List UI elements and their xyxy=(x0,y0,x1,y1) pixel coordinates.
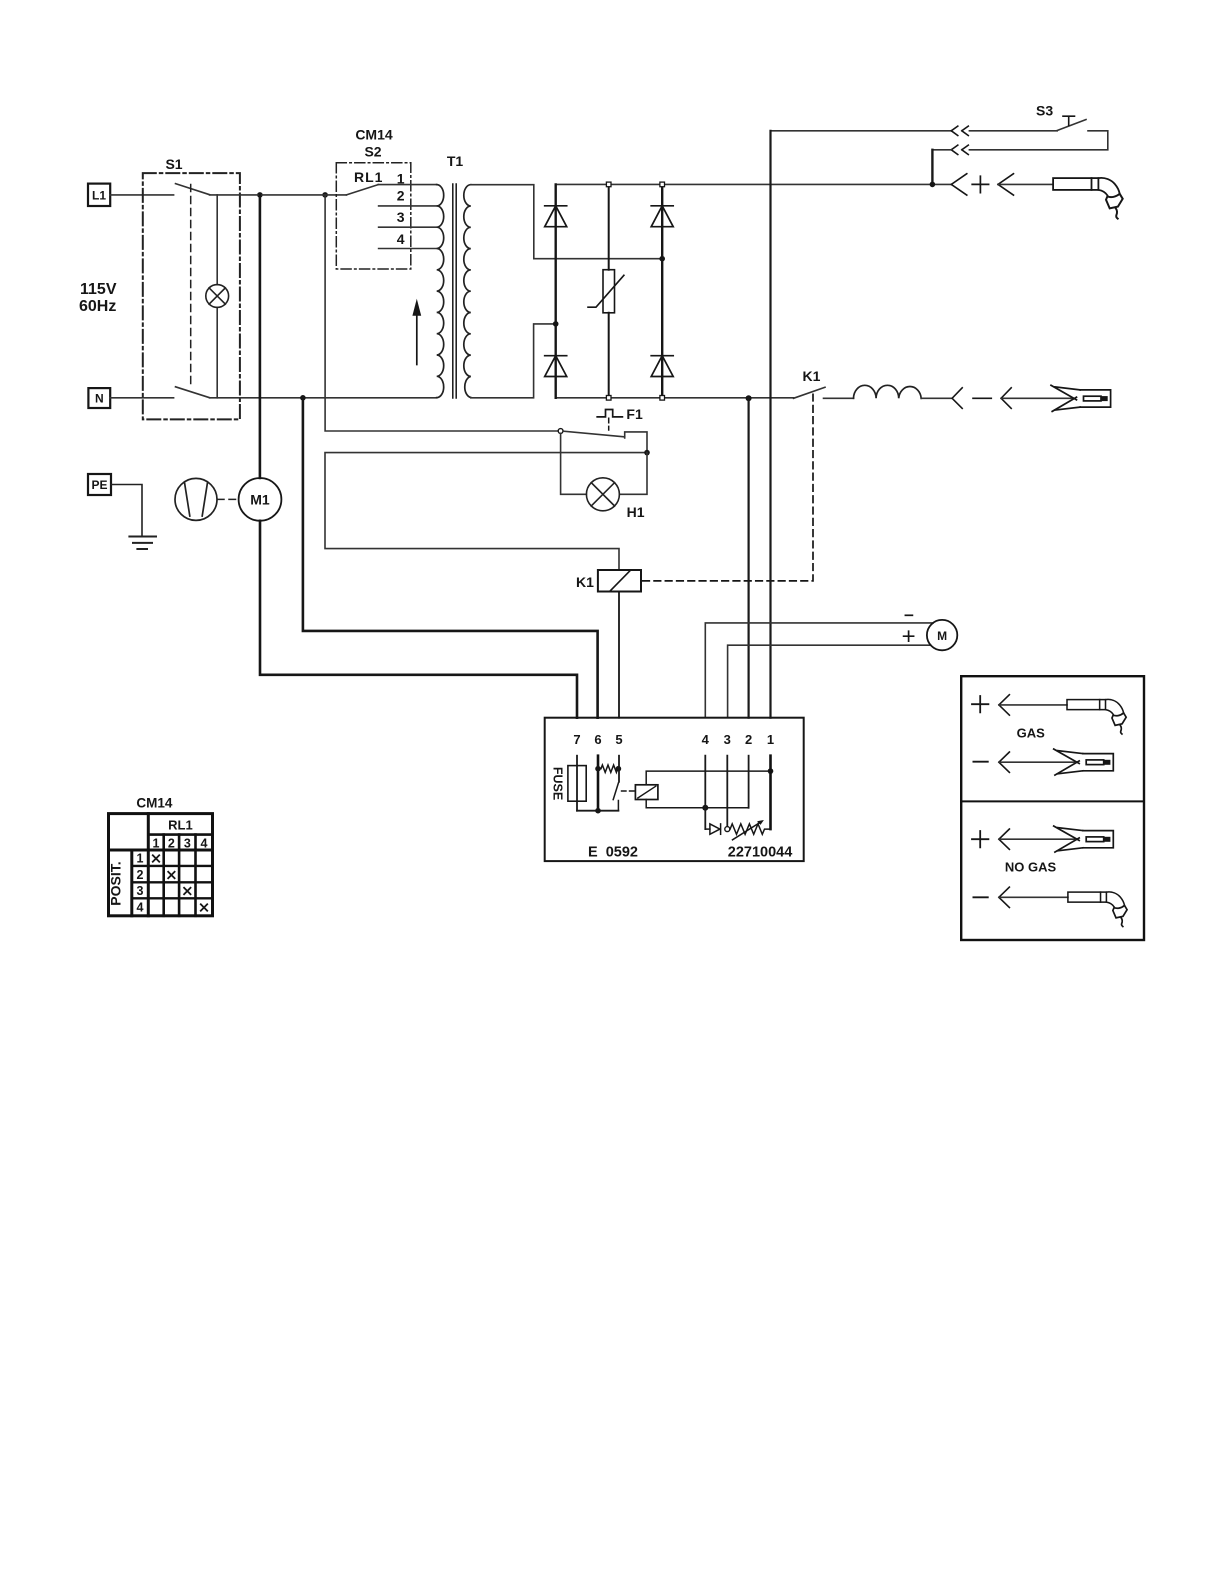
wire secondary top to AC2 node xyxy=(471,185,662,259)
diode D5 xyxy=(705,824,720,834)
pin 1 internal wire xyxy=(769,756,772,829)
svg-text:1: 1 xyxy=(137,852,144,866)
table CM14 xyxy=(109,814,213,916)
svg-text:N: N xyxy=(95,391,104,405)
DC bottom rail (-) xyxy=(556,397,794,399)
wire coil bottom to pin2 xyxy=(646,800,748,808)
svg-text:3: 3 xyxy=(397,209,405,225)
node E (AC2 junction col2) xyxy=(659,256,665,262)
wire S1 top output xyxy=(210,194,347,196)
diode D4 xyxy=(651,356,673,377)
fan symbol xyxy=(175,478,217,520)
wire pin4 to motor minus xyxy=(705,623,933,718)
wire S1 bottom output (N rail to transformer) xyxy=(210,397,437,399)
svg-text:2: 2 xyxy=(137,868,144,882)
lamp in S1 upper lead xyxy=(216,195,218,285)
table mark X row3 xyxy=(184,888,190,894)
rectifier column 2 wire xyxy=(661,184,663,397)
svg-text:4: 4 xyxy=(702,732,710,747)
terminal L1 xyxy=(88,184,110,206)
contact F1 blade xyxy=(563,431,625,437)
svg-text:1: 1 xyxy=(153,837,160,851)
node Q (pin6 bottom) xyxy=(595,808,601,814)
svg-text:K1: K1 xyxy=(576,574,594,590)
node F (F1 output) xyxy=(644,450,650,456)
wire inductor to connector xyxy=(921,397,952,399)
terminal square bottom varistor xyxy=(606,396,611,401)
switch S1 pole top blade xyxy=(176,184,210,195)
node D (AC1 junction col1) xyxy=(553,321,559,327)
svg-text:L1: L1 xyxy=(92,189,106,203)
connector chevrons wire2 xyxy=(951,145,968,154)
svg-text:2: 2 xyxy=(397,188,405,204)
wire L1 junction down to M1 xyxy=(259,195,262,478)
svg-text:115V: 115V xyxy=(80,281,117,298)
diode D1 xyxy=(545,206,567,227)
svg-text:2: 2 xyxy=(745,732,752,747)
svg-text:22710044: 22710044 xyxy=(728,844,793,860)
thermal element F1 xyxy=(597,410,622,417)
connector chevron clamp line 1 xyxy=(952,388,962,409)
connector chevron clamp line 2 xyxy=(1001,388,1011,409)
svg-text:1: 1 xyxy=(397,171,405,187)
relay coil K1 xyxy=(598,570,641,592)
svg-text:1: 1 xyxy=(767,732,774,747)
svg-text:F1: F1 xyxy=(626,406,643,422)
node R (pin5 resistor tap) xyxy=(616,766,622,772)
wire pin2 riser xyxy=(747,398,749,717)
wire S3 return to + rail xyxy=(932,149,951,151)
wire L1 to RL1 blade xyxy=(110,194,173,196)
wire PE to ground xyxy=(111,485,142,537)
svg-text:RL1: RL1 xyxy=(354,169,383,185)
torch (main) xyxy=(1053,178,1123,219)
varistor RV1 xyxy=(588,270,624,313)
table mark X row4 xyxy=(201,904,207,910)
K1 link dashed xyxy=(643,394,813,581)
svg-text:POSIT.: POSIT. xyxy=(108,861,124,905)
legend chevron torch gas xyxy=(999,695,1010,715)
ground xyxy=(129,537,156,550)
node T (pin4 tap) xyxy=(702,805,708,811)
pin 2 internal wire xyxy=(748,756,750,808)
contact F1 fixed side xyxy=(625,432,647,453)
svg-text:E 0592: E 0592 xyxy=(588,844,638,860)
svg-text:S3: S3 xyxy=(1036,103,1053,119)
varistor column wire xyxy=(608,184,610,397)
legend wire to torch gas xyxy=(999,704,1067,706)
switch S1 mechanical link (dashed) xyxy=(190,185,192,389)
label plus (motor) xyxy=(904,631,914,641)
svg-text:6: 6 xyxy=(594,732,601,747)
work clamp (main) xyxy=(1051,385,1111,411)
switch S3 blade xyxy=(1057,120,1086,131)
svg-text:60Hz: 60Hz xyxy=(79,298,116,315)
svg-text:GAS: GAS xyxy=(1017,726,1046,741)
tap 2 wire xyxy=(379,205,437,207)
legend torch (no gas, -) xyxy=(1068,892,1127,927)
pin 7 internal wire xyxy=(576,756,578,811)
F1 mechanical link dashes xyxy=(608,418,610,430)
wire H1 left lead xyxy=(561,433,587,494)
svg-text:H1: H1 xyxy=(627,504,645,520)
svg-text:T1: T1 xyxy=(447,153,464,169)
internal relay coil xyxy=(635,785,658,800)
lamp H1 xyxy=(586,478,619,511)
terminal square bottom col2 xyxy=(660,396,665,401)
svg-text:4: 4 xyxy=(137,901,144,915)
node C (N junction) xyxy=(300,395,306,401)
legend chevron clamp no-gas xyxy=(999,829,1010,849)
svg-text:K1: K1 xyxy=(803,368,821,384)
legend clamp (no gas, +) xyxy=(1054,826,1114,852)
svg-text:PE: PE xyxy=(91,478,107,492)
wire L1 feed down to F1 xyxy=(325,195,558,431)
terminal square top col2 xyxy=(660,182,665,187)
legend torch (gas, +) xyxy=(1067,699,1126,734)
legend chevron torch no-gas xyxy=(999,887,1010,907)
svg-text:RL1: RL1 xyxy=(168,818,193,833)
node U (pin3 circle) xyxy=(725,827,730,832)
svg-text:S1: S1 xyxy=(165,156,182,172)
relay RL1 blade xyxy=(346,185,378,195)
svg-text:S2: S2 xyxy=(364,143,381,159)
legend box xyxy=(961,676,1144,940)
transformer T1 core xyxy=(453,184,456,398)
wire K1 to inductor xyxy=(824,397,854,399)
rheostat R2 xyxy=(730,820,770,840)
connector gap dash xyxy=(973,397,991,399)
fuse body xyxy=(568,766,586,802)
legend plus (no gas) xyxy=(972,831,988,847)
arrow (adjustable tap) xyxy=(412,299,421,365)
pin 5 internal wire xyxy=(618,756,620,782)
wire N junction to PCB pin 6 xyxy=(303,398,598,718)
wire to clamp xyxy=(1001,397,1074,399)
legend chevron clamp gas xyxy=(999,752,1010,772)
diode D3 xyxy=(651,206,673,227)
wire to S3 xyxy=(969,130,1057,132)
fan to M1 link (dashed) xyxy=(218,498,239,500)
svg-text:5: 5 xyxy=(615,732,622,747)
transformer T1 primary winding xyxy=(437,185,444,398)
internal contact blade xyxy=(613,783,618,811)
wire pin3 to motor plus xyxy=(728,645,931,718)
svg-text:3: 3 xyxy=(184,837,191,851)
connector chevron torch line 2 xyxy=(998,174,1014,195)
terminal square top varistor xyxy=(606,182,611,187)
label 115V 60Hz xyxy=(79,281,117,315)
svg-text:CM14: CM14 xyxy=(355,126,393,142)
DC top rail (+) xyxy=(556,183,951,185)
contact K1 xyxy=(794,387,826,398)
connector chevron torch line 1 xyxy=(951,174,967,195)
node H (bottom rail to pin2) xyxy=(746,395,752,401)
svg-text:FUSE: FUSE xyxy=(551,767,565,800)
pin 6 internal wire xyxy=(597,756,600,811)
legend wire to torch no-gas xyxy=(999,896,1068,898)
wire S3 loop top xyxy=(771,130,952,132)
wire S3 fixed side xyxy=(969,131,1107,150)
node S (pin1 tap) xyxy=(768,768,774,774)
wire pin1 riser xyxy=(769,131,771,718)
wire coil top to pin1 xyxy=(646,771,770,785)
switch S3 actuator T xyxy=(1063,116,1075,125)
pin 4 internal wire xyxy=(704,756,706,829)
lamp symbol in S1 xyxy=(206,285,229,308)
terminal N xyxy=(88,388,110,408)
switch S1 pole bottom blade xyxy=(176,387,210,398)
node G (S3 return junction) xyxy=(930,182,936,188)
wire N to S1 xyxy=(110,397,173,399)
wire K1 coil to PCB pin 5 xyxy=(618,592,620,718)
wire secondary bottom to AC1 node xyxy=(471,324,556,398)
motor M1 xyxy=(239,478,282,521)
node B (L1 junction to F1 feed) xyxy=(322,192,328,198)
wire to torch xyxy=(998,183,1053,185)
svg-text:CM14: CM14 xyxy=(136,796,173,811)
F1 left terminal circle xyxy=(558,429,563,434)
svg-text:NO GAS: NO GAS xyxy=(1005,860,1057,875)
inductor L1 xyxy=(854,385,922,398)
tap 4 wire xyxy=(379,248,437,250)
svg-text:2: 2 xyxy=(168,837,175,851)
terminal PE xyxy=(88,474,111,495)
node A (L1 junction to M1 column) xyxy=(257,192,263,198)
wire F1 output return xyxy=(325,453,647,570)
internal bottom bus xyxy=(577,810,618,812)
table mark X row1 xyxy=(153,855,159,861)
svg-text:4: 4 xyxy=(397,231,405,247)
svg-text:7: 7 xyxy=(573,732,580,747)
node P (pin6 resistor tap) xyxy=(595,766,601,772)
table mark X row2 xyxy=(168,872,174,878)
relay RL1 / tap selector enclosure S2 xyxy=(336,163,411,269)
switch S1 enclosure xyxy=(143,173,240,419)
wire H1 right lead xyxy=(619,453,647,495)
wire M1 to PCB pin 7 xyxy=(260,521,577,718)
label minus (motor) xyxy=(905,614,912,616)
motor M (wire feed) xyxy=(927,620,957,650)
tap 1 wire xyxy=(378,184,437,186)
rectifier column 1 wire xyxy=(555,184,557,397)
plus polarity mark xyxy=(972,176,988,192)
legend minus (gas) xyxy=(973,761,987,763)
svg-text:M1: M1 xyxy=(250,492,270,508)
transformer T1 secondary winding xyxy=(464,185,471,398)
svg-text:M: M xyxy=(937,629,947,643)
legend plus (gas) xyxy=(972,696,988,712)
legend clamp (gas, -) xyxy=(1054,749,1114,775)
PCB board E0592 xyxy=(545,718,804,861)
legend minus (no gas) xyxy=(973,896,987,898)
legend wire to clamp gas xyxy=(999,761,1074,763)
svg-text:3: 3 xyxy=(724,732,731,747)
tap 3 wire xyxy=(379,226,437,228)
diode D2 xyxy=(545,356,567,377)
lamp in S1 lower lead xyxy=(216,307,218,397)
pin 3 internal wire xyxy=(726,756,728,827)
internal link dashes xyxy=(622,790,636,792)
svg-text:3: 3 xyxy=(137,884,144,898)
legend wire to clamp no-gas xyxy=(999,838,1074,840)
connector chevrons wire1 xyxy=(951,126,968,135)
svg-text:4: 4 xyxy=(201,837,208,851)
resistor R1 xyxy=(601,765,618,772)
